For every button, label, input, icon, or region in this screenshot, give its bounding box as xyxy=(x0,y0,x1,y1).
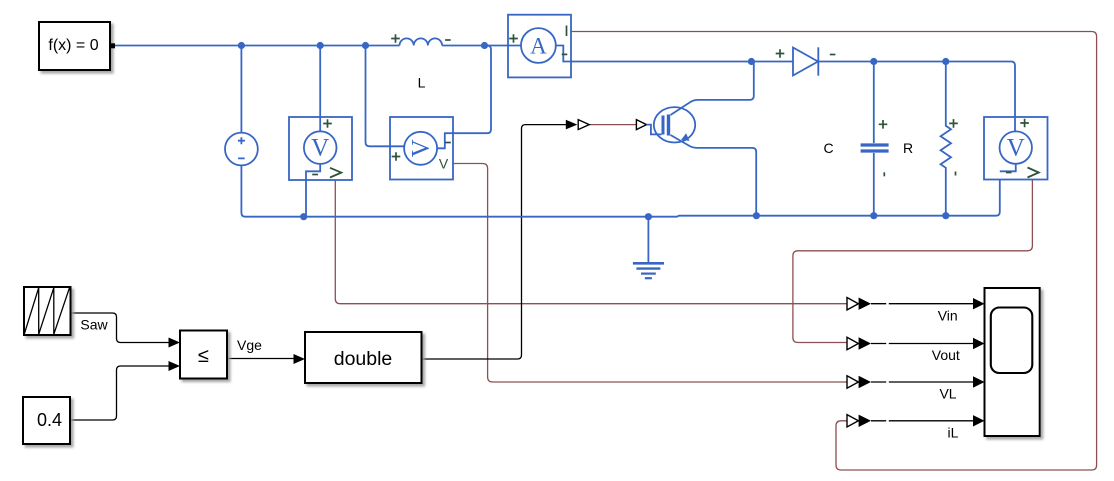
svg-text:V: V xyxy=(1007,135,1025,162)
svg-text:Vge: Vge xyxy=(237,337,262,353)
svg-text:Vout: Vout xyxy=(932,347,960,363)
svg-text:C: C xyxy=(823,140,833,156)
svg-text:Saw: Saw xyxy=(80,317,108,333)
svg-text:iL: iL xyxy=(948,424,959,440)
svg-text:V: V xyxy=(439,156,449,172)
svg-text:f(x) = 0: f(x) = 0 xyxy=(48,37,98,54)
svg-text:VL: VL xyxy=(939,386,956,402)
svg-text:R: R xyxy=(903,140,913,156)
svg-text:A: A xyxy=(530,34,547,59)
svg-text:double: double xyxy=(334,348,393,370)
svg-text:V: V xyxy=(408,139,435,157)
svg-text:≤: ≤ xyxy=(198,345,209,367)
svg-text:0.4: 0.4 xyxy=(37,410,62,430)
svg-text:Vin: Vin xyxy=(938,307,958,323)
svg-text:L: L xyxy=(418,75,426,91)
svg-text:V: V xyxy=(311,135,329,162)
